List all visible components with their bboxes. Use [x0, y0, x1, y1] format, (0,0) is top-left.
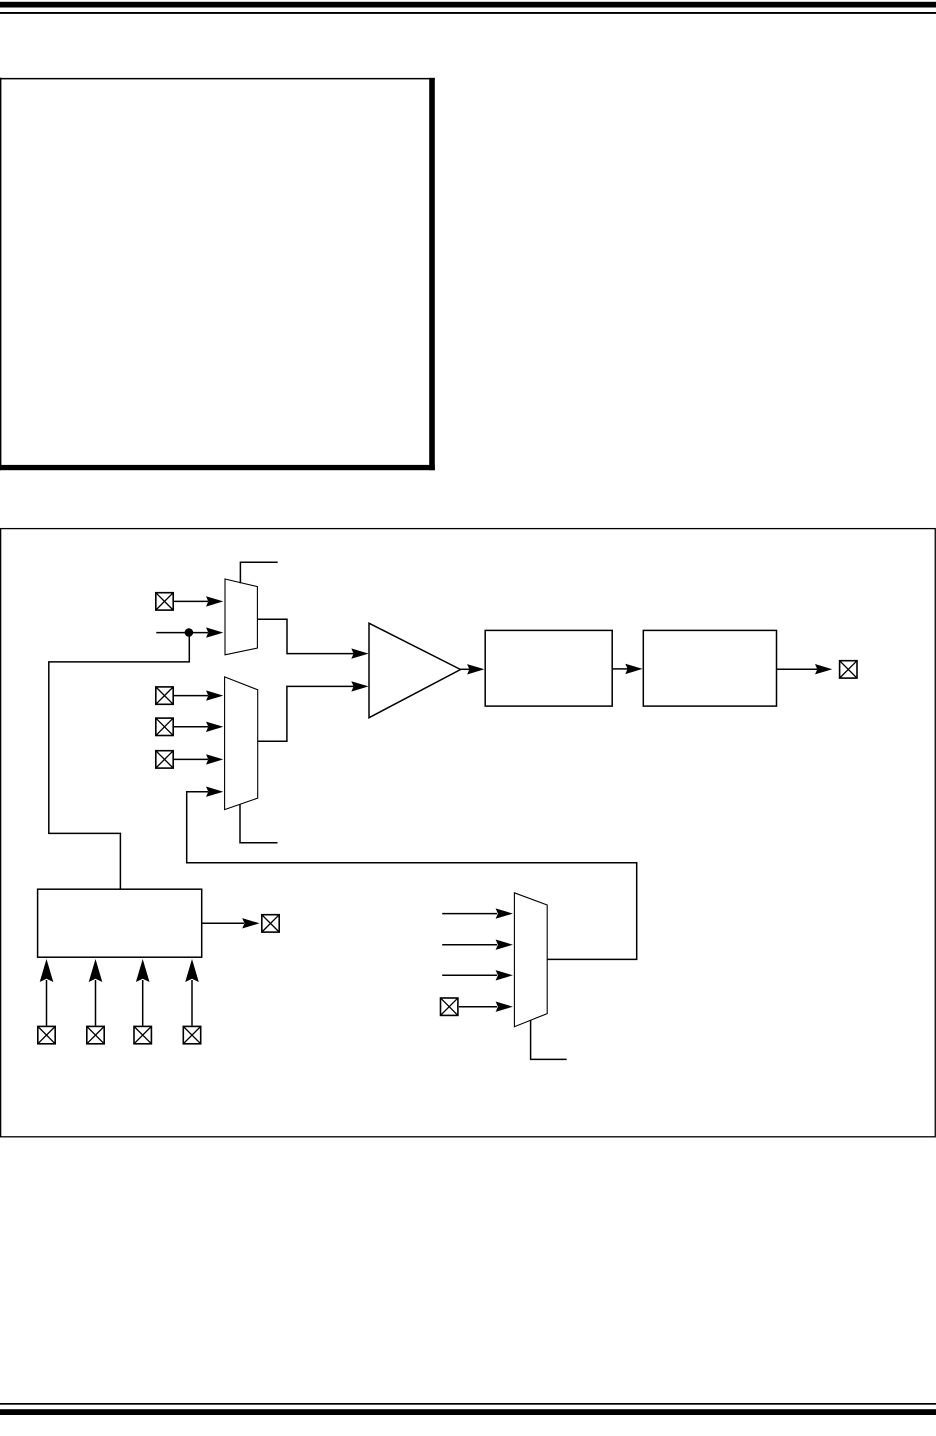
block B2 (output driver)	[643, 630, 776, 706]
wire B1 to B2	[612, 668, 628, 670]
wire M1 select stub	[240, 562, 277, 583]
pin VRx2 (X-box input)	[87, 1026, 104, 1043]
pin C1OUT (X-box output)	[840, 661, 857, 678]
arrowhead M1 input 1	[206, 596, 223, 606]
arrowhead CVref input 4	[185, 959, 199, 982]
wire RA2 to M2 input 3	[174, 758, 208, 760]
arrowhead CVref output pin	[242, 918, 259, 928]
pin VRx1 (X-box input)	[38, 1026, 55, 1043]
wire from junction dot to CVref module select	[49, 633, 190, 889]
mux M1 (non-inverting input mux)	[225, 579, 257, 655]
wire RA1 to M2 input 2	[174, 726, 208, 728]
arrowhead comparator inverting input	[351, 681, 368, 691]
page header rule (thin)	[0, 12, 936, 14]
arrowhead M1 input 2	[206, 627, 223, 637]
pin CVref (X-box output)	[262, 915, 279, 932]
wire CVref input 2	[95, 980, 97, 1026]
page footer rule (thin)	[0, 1403, 936, 1405]
wire from mux M3 output to M2 input 4	[187, 792, 637, 960]
arrowhead M3 input 3	[496, 970, 513, 980]
wire M2 output to comparator inverting input	[258, 686, 354, 741]
wire M3 input 2	[442, 944, 497, 946]
block B1 (output polarity logic)	[485, 630, 612, 706]
note box (empty, shadowed)	[0, 78, 435, 471]
arrowhead M2 input 1	[206, 690, 223, 700]
page footer rule (thick)	[0, 1409, 936, 1415]
arrowhead M2 input 4	[206, 787, 223, 797]
arrowhead M3 input 2	[496, 940, 513, 950]
pin RA3 (X-box input to M1)	[156, 593, 173, 610]
op-amp U1 (comparator)	[369, 623, 461, 718]
wire M1 output to comparator non-inverting input	[257, 619, 354, 653]
arrowhead comparator non-inverting input	[351, 648, 368, 658]
arrowhead CVref input 1	[40, 959, 54, 982]
mux M3 (reference select mux)	[514, 893, 547, 1027]
mux M2 (inverting input mux)	[225, 677, 258, 810]
arrowhead CVref input 3	[136, 959, 150, 982]
block CVref module	[38, 889, 202, 957]
wire CVref input 3	[142, 980, 144, 1026]
pin RA0 (X-box input to M2)	[156, 687, 173, 704]
wire M3 select stub	[531, 1020, 567, 1059]
arrowhead into block B1	[467, 664, 484, 674]
wire RA0 to M2 input 1	[174, 695, 208, 697]
page header rule (thick)	[0, 2, 936, 8]
pin Vdd-derived ref (X-box input to M3)	[441, 998, 458, 1015]
arrowhead M3 input 1	[496, 908, 513, 918]
wire M3 input 4	[459, 1006, 497, 1008]
arrowhead M2 input 2	[206, 722, 223, 732]
wire M3 input 3	[442, 974, 497, 976]
arrowhead CVref input 2	[89, 959, 103, 982]
pin VRx3 (X-box input)	[134, 1026, 151, 1043]
arrowhead into block B2	[625, 664, 642, 674]
wire RA3 to M1 input 1	[174, 600, 208, 602]
arrowhead M3 input 4	[496, 1002, 513, 1012]
arrowhead at output pin	[815, 664, 832, 674]
wire comparator output	[461, 668, 471, 670]
wire M2 select stub	[240, 804, 278, 842]
wire M3 input 1	[442, 913, 497, 915]
pin RA2 (X-box input to M2)	[156, 751, 173, 768]
pin VRx4 (X-box input)	[183, 1026, 200, 1043]
figure frame	[1, 529, 936, 1137]
wire CVref output	[202, 922, 244, 924]
wire CVref input 1	[46, 980, 48, 1026]
junction dot on CVref wire	[185, 628, 194, 637]
pin RA1 (X-box input to M2)	[156, 718, 173, 735]
wire CVref input 4	[191, 980, 193, 1026]
wire B2 to output pin	[777, 668, 818, 670]
arrowhead M2 input 3	[206, 754, 223, 764]
wire CVref stub to M1 input 2	[156, 632, 208, 634]
